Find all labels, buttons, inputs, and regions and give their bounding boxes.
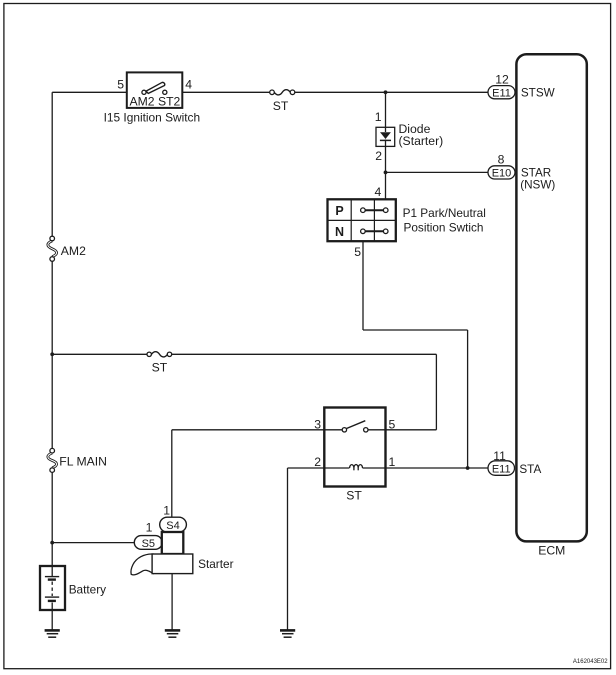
- wire ST row corner down to relay pin5: [386, 354, 437, 430]
- svg-text:Battery: Battery: [69, 582, 106, 596]
- svg-text:8: 8: [498, 152, 505, 166]
- connector E11 (STA): [488, 449, 541, 476]
- wire diode branch vertical: [385, 92, 387, 199]
- svg-text:Starter: Starter: [198, 557, 233, 571]
- wire E10 row y=172.4: [386, 171, 489, 173]
- ignition switch blade: [146, 82, 165, 93]
- N row contact: [361, 229, 388, 234]
- battery internals: [45, 566, 59, 610]
- wire battery to ground: [51, 610, 53, 630]
- fusible link AM2: [48, 236, 86, 261]
- svg-text:1: 1: [375, 110, 382, 124]
- svg-text:AM2 ST2: AM2 ST2: [130, 94, 181, 108]
- svg-text:E11: E11: [492, 463, 511, 475]
- battery box: [40, 566, 65, 610]
- diode D box: [376, 127, 395, 146]
- wire battery feed to S5: [52, 542, 134, 544]
- starter body: [152, 554, 193, 574]
- fusible link FL MAIN: [48, 448, 107, 472]
- svg-text:S4: S4: [166, 520, 179, 532]
- svg-text:P1 Park/Neutral: P1 Park/Neutral: [403, 206, 486, 220]
- svg-text:N: N: [335, 225, 344, 239]
- wire left vertical x=52.2: [51, 92, 53, 566]
- svg-text:Position Swtich: Position Swtich: [404, 221, 484, 235]
- wire relay pin3 to starter: [172, 430, 324, 518]
- svg-text:I15 Ignition Switch: I15 Ignition Switch: [104, 111, 201, 125]
- ignition switch contact circles: [142, 90, 167, 94]
- fuse ST (top): [270, 90, 295, 114]
- wire middle ST row y=354.3: [52, 353, 436, 355]
- ignition switch I15 box: [127, 72, 183, 108]
- svg-text:S5: S5: [142, 538, 155, 550]
- svg-text:(NSW): (NSW): [520, 178, 555, 191]
- svg-text:ST: ST: [273, 99, 289, 113]
- svg-text:3: 3: [314, 417, 321, 431]
- svg-text:(Starter): (Starter): [399, 134, 444, 148]
- P row contact: [361, 208, 388, 213]
- connector S5: [134, 520, 162, 550]
- svg-text:12: 12: [495, 72, 509, 86]
- svg-text:1: 1: [146, 520, 153, 534]
- connector E11 (STSW): [488, 72, 555, 99]
- svg-text:2: 2: [375, 149, 382, 163]
- svg-text:AM2: AM2: [61, 244, 86, 258]
- svg-text:A162043E02: A162043E02: [573, 659, 608, 665]
- fuse ST (middle): [147, 352, 172, 375]
- svg-text:ECM: ECM: [538, 544, 565, 558]
- ground (relay): [280, 630, 295, 637]
- svg-text:ST: ST: [152, 360, 168, 374]
- relay ST box: [324, 408, 385, 487]
- ECM box: [516, 54, 586, 541]
- ground (starter): [165, 630, 180, 637]
- junction dot top-diode: [384, 90, 388, 94]
- starter solenoid box: [162, 532, 184, 554]
- starter flag: [131, 554, 153, 575]
- svg-text:E10: E10: [492, 168, 512, 180]
- svg-text:P: P: [335, 204, 343, 218]
- svg-text:1: 1: [163, 504, 170, 518]
- connector S4: [160, 504, 187, 533]
- svg-text:STSW: STSW: [521, 87, 555, 100]
- diode triangle: [380, 132, 391, 139]
- relay coil: [324, 465, 385, 471]
- junction dot diode-E10: [384, 171, 388, 175]
- relay switch contacts: [324, 421, 385, 432]
- svg-text:4: 4: [375, 185, 382, 199]
- wire starter to ground: [171, 574, 173, 630]
- svg-text:ST: ST: [346, 489, 362, 503]
- svg-text:STA: STA: [519, 463, 541, 476]
- diode cathode bar: [380, 139, 391, 141]
- svg-text:4: 4: [185, 78, 192, 92]
- wire relay pin2 to ground: [288, 468, 325, 630]
- junction dot STA: [466, 466, 470, 470]
- svg-text:5: 5: [117, 78, 124, 92]
- wire top row y=92.3: [52, 91, 488, 93]
- connector E10 (STAR): [488, 152, 555, 191]
- svg-text:FL MAIN: FL MAIN: [59, 454, 107, 468]
- junction dot left-ST row: [50, 352, 54, 356]
- svg-text:11: 11: [493, 449, 506, 463]
- svg-text:1: 1: [389, 455, 396, 469]
- svg-text:5: 5: [389, 417, 396, 431]
- P1 park/neutral switch box: [328, 199, 396, 241]
- P/N box dividers: [328, 199, 396, 241]
- wire P/N pin5 route: [363, 241, 468, 468]
- ground (battery): [45, 630, 60, 637]
- svg-text:2: 2: [314, 455, 321, 469]
- svg-text:5: 5: [354, 245, 361, 259]
- wire relay pin1 to E11 STA: [386, 467, 489, 469]
- junction dot battery-S5: [50, 541, 54, 545]
- svg-text:E11: E11: [492, 87, 511, 99]
